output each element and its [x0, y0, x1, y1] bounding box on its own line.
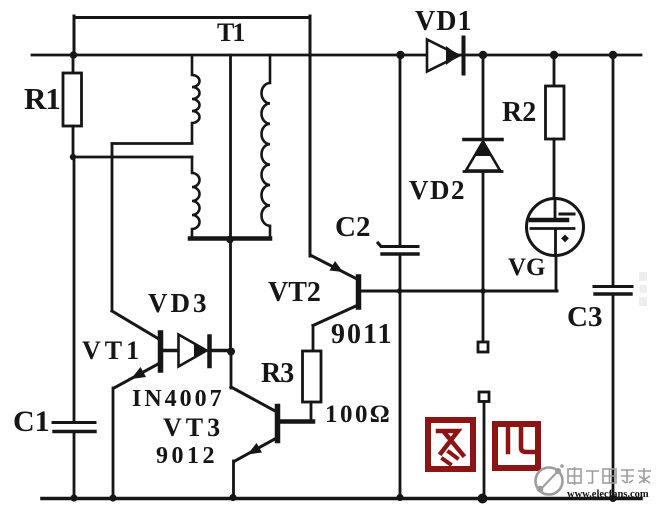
- svg-text:IN4007: IN4007: [132, 386, 225, 412]
- terminal lower probe: [479, 392, 489, 402]
- svg-text:VG: VG: [508, 254, 546, 281]
- svg-text:9012: 9012: [156, 443, 218, 469]
- figure caption: character SI (four): [495, 424, 538, 468]
- wire left drop from top rail: [73, 16, 76, 55]
- wire transformer bottom thick link: [190, 236, 270, 241]
- wire core junction down to VD3 cathode node: [229, 240, 232, 351]
- svg-text:VD1: VD1: [415, 6, 472, 37]
- wire VT2 emitter riser: [309, 16, 312, 256]
- transformer T1 secondary winding: [262, 55, 271, 237]
- node base line x VD2: [480, 288, 486, 294]
- diode VD2: [464, 55, 502, 342]
- watermark text dian zi fa shao you: [568, 467, 651, 485]
- wire VD3 node down to VT3 collector: [230, 351, 233, 388]
- wire VG bottom drop: [555, 256, 558, 292]
- node C2 tap: [396, 51, 404, 59]
- diode VD3: [163, 335, 231, 367]
- resistor R3: [280, 351, 321, 422]
- transformer T1 upper primary winding: [192, 56, 200, 143]
- wire bottom ground rail: [42, 497, 641, 501]
- svg-text:T1: T1: [217, 18, 244, 47]
- faint edge smudge: [639, 272, 647, 306]
- svg-text:VD2: VD2: [409, 175, 466, 205]
- wire winding to VT1 collector: [112, 142, 192, 145]
- node C3 tap: [609, 51, 617, 59]
- wire main top rail: [32, 54, 641, 57]
- capacitor C2: [378, 55, 418, 497]
- node base line x C2: [397, 288, 403, 294]
- transformer T1 lower primary winding: [192, 157, 200, 236]
- capacitor C1: [53, 157, 95, 498]
- node VD3 cathode junction: [227, 348, 235, 356]
- node R1 top: [70, 51, 78, 59]
- svg-text:VD3: VD3: [148, 288, 210, 318]
- node C3 ground: [609, 495, 616, 502]
- svg-text:VT2: VT2: [268, 277, 321, 308]
- wire lower probe to ground rail: [483, 402, 486, 499]
- capacitor C3: [594, 55, 632, 498]
- svg-text:R1: R1: [24, 81, 60, 116]
- node transformer bottom: [226, 236, 234, 244]
- svg-text:C3: C3: [567, 301, 602, 333]
- svg-text:100Ω: 100Ω: [325, 401, 392, 428]
- node C2 ground: [396, 494, 403, 501]
- node C1 ground: [70, 494, 77, 501]
- node VD2 tap: [479, 51, 487, 59]
- wire VT1 collector riser: [111, 144, 114, 312]
- transistor VT2: [312, 256, 359, 351]
- svg-text:VT1: VT1: [82, 336, 143, 365]
- transistor VT1: [112, 311, 161, 498]
- node VT1 emitter ground: [109, 494, 116, 501]
- wire VT2 base line: [361, 290, 557, 293]
- node R1 bottom junction: [70, 154, 76, 160]
- transformer T1 core: [229, 55, 232, 238]
- node VT3 emitter ground: [229, 494, 236, 501]
- svg-text:R3: R3: [261, 358, 294, 389]
- svg-text:C2: C2: [335, 211, 370, 243]
- resistor R1: [63, 55, 82, 157]
- svg-text:www.elecfans.com: www.elecfans.com: [567, 489, 649, 500]
- gas discharge tube VG: [527, 199, 584, 256]
- resistor R2: [546, 55, 565, 198]
- svg-text:R2: R2: [502, 97, 536, 128]
- watermark logo circle: [536, 464, 564, 494]
- svg-text:VT3: VT3: [163, 413, 224, 442]
- node R2 tap: [550, 51, 558, 59]
- node probe ground: [478, 494, 488, 504]
- figure caption: character TU (figure): [428, 420, 473, 469]
- wire R1 bottom to lower primary winding: [72, 156, 192, 159]
- diode VD1: [427, 38, 464, 74]
- wire top feedback rail: [74, 16, 310, 19]
- terminal upper probe: [478, 342, 488, 352]
- svg-text:9011: 9011: [331, 319, 393, 350]
- svg-text:C1: C1: [13, 405, 50, 438]
- transistor VT3: [231, 387, 278, 498]
